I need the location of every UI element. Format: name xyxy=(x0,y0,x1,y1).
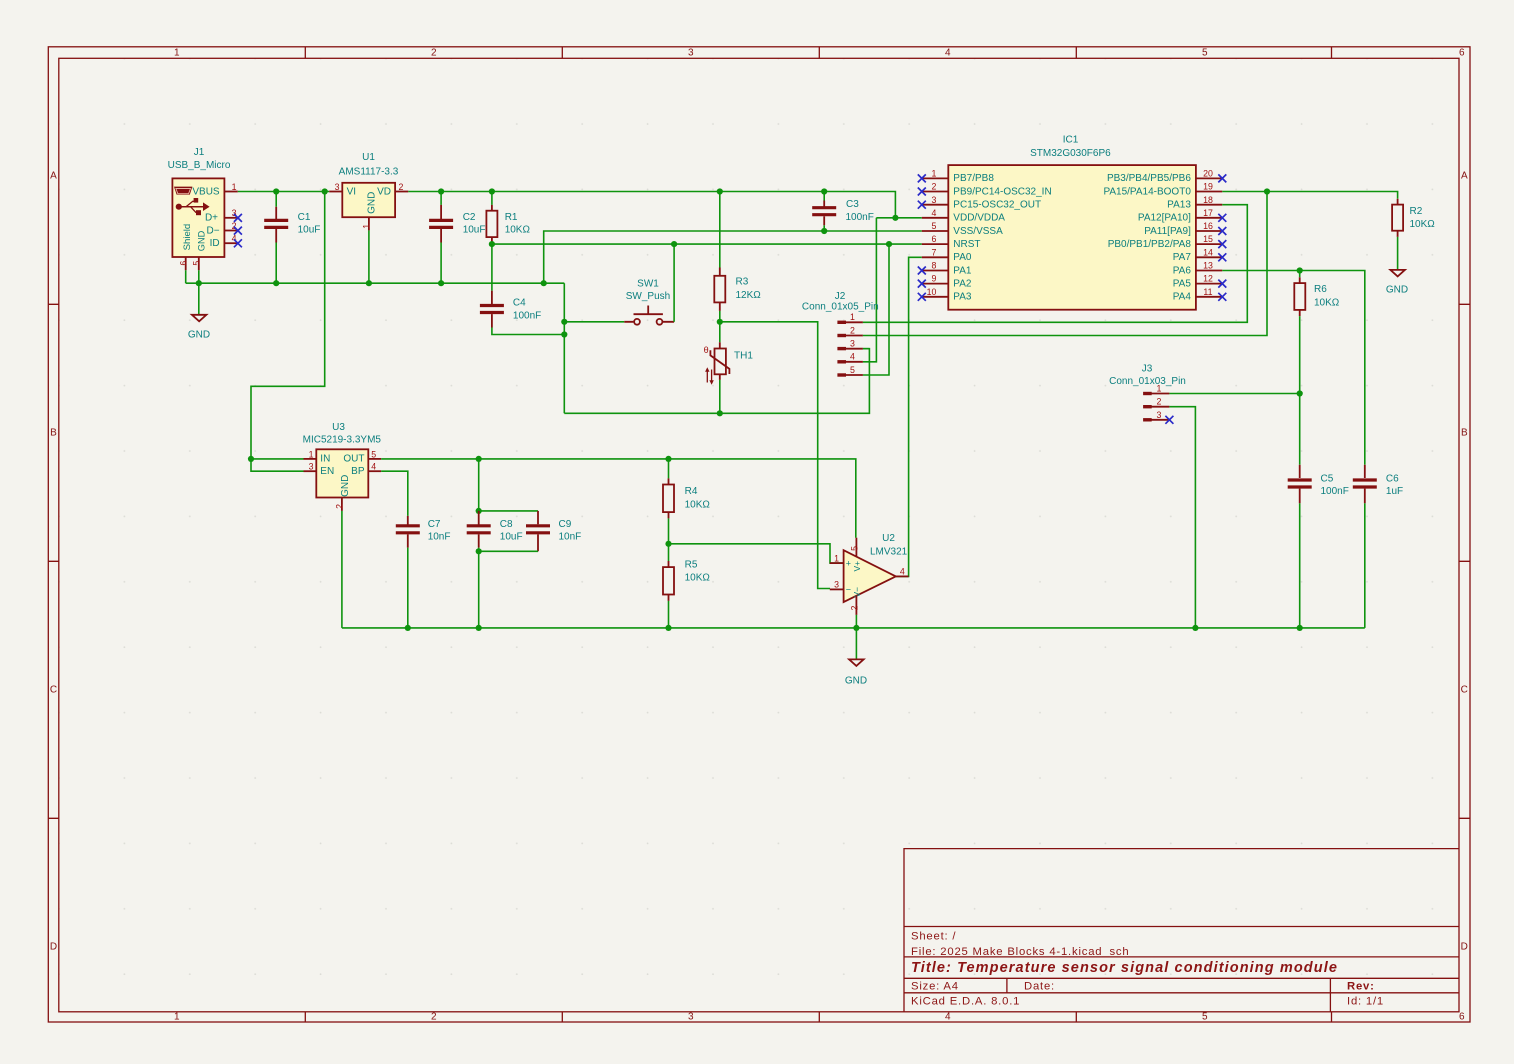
no-connect X on IC1 pin 20 xyxy=(1218,174,1226,182)
resistor R5 top lead xyxy=(668,544,670,561)
svg-text:4: 4 xyxy=(371,462,376,472)
resistor R2 bottom lead xyxy=(1397,231,1399,237)
svg-text:U2: U2 xyxy=(882,533,895,544)
junction 3V3 rail at C3 xyxy=(821,188,827,194)
wire J3 pin1 to R6 bottom xyxy=(1169,393,1299,395)
wire VBUS down to U3 branch xyxy=(251,192,325,459)
no-connect X on IC1 pin 2 xyxy=(918,188,926,196)
thermistor TH1 top lead xyxy=(719,322,721,343)
svg-text:SW1: SW1 xyxy=(637,279,659,290)
IC1 pin 10 stub xyxy=(922,296,949,298)
IC1 pin 12 stub xyxy=(1196,283,1222,285)
svg-text:5: 5 xyxy=(192,261,202,266)
svg-text:7: 7 xyxy=(932,247,937,257)
svg-text:C6: C6 xyxy=(1386,474,1399,485)
svg-text:R4: R4 xyxy=(685,486,698,497)
wire J2 pin3 to gnd rail2 xyxy=(863,348,870,350)
J3 pin 1 xyxy=(1143,392,1152,395)
thermistor TH1 body xyxy=(715,349,726,375)
wire NRST down to C4 xyxy=(491,244,493,291)
U3 pin 4 stub (BP) xyxy=(368,470,381,472)
svg-text:EN: EN xyxy=(320,466,334,477)
wire J2 pin1 to PA13 xyxy=(863,205,1247,323)
wire VDD feed to IC pin4 xyxy=(876,217,921,219)
capacitor C5 plates xyxy=(1288,480,1312,487)
resistor R6 body xyxy=(1294,283,1305,310)
thermistor TH1 diagonal mark xyxy=(710,350,729,374)
svg-text:Conn_01x05_Pin: Conn_01x05_Pin xyxy=(802,302,879,313)
svg-text:15: 15 xyxy=(1203,234,1213,244)
J1 pin 4 stub xyxy=(224,242,237,244)
svg-text:8: 8 xyxy=(932,261,937,271)
svg-text:1: 1 xyxy=(232,182,237,192)
junction 3V3B rail at C8 column xyxy=(476,456,482,462)
U3 pin 3 stub (EN) xyxy=(304,470,317,472)
svg-text:10nF: 10nF xyxy=(428,532,451,543)
svg-text:1: 1 xyxy=(932,169,937,179)
resistor R5 bottom lead xyxy=(668,595,670,601)
IC1 pin 4 stub xyxy=(922,217,949,219)
regulator U1 body xyxy=(342,183,395,217)
junction C8 top bridge xyxy=(476,508,482,514)
U1 pin 2 stub (VD) xyxy=(395,191,408,193)
svg-text:PA15/PA14-BOOT0: PA15/PA14-BOOT0 xyxy=(1103,186,1191,197)
resistor R3 body xyxy=(714,276,725,303)
svg-text:Conn_01x03_Pin: Conn_01x03_Pin xyxy=(1109,376,1186,387)
svg-text:5: 5 xyxy=(849,546,859,551)
IC1 pin 15 stub xyxy=(1196,243,1222,245)
svg-text:PB7/PB8: PB7/PB8 xyxy=(953,173,994,184)
U2 pin 5 stub (V+) xyxy=(855,538,857,557)
junction gnd rail at J1 pin5 xyxy=(196,280,202,286)
svg-text:A: A xyxy=(50,171,57,182)
svg-text:Date:: Date: xyxy=(1024,980,1055,992)
svg-text:B: B xyxy=(50,428,57,439)
wire gnd rail corner down xyxy=(563,283,565,413)
U2 pin 4 stub (output) xyxy=(896,575,909,577)
thermistor TH1 bottom lead xyxy=(719,374,721,380)
wire VBUS J1 to U1 xyxy=(238,191,329,193)
svg-text:6: 6 xyxy=(1459,1012,1465,1023)
svg-text:1: 1 xyxy=(174,1012,180,1023)
svg-text:Shield: Shield xyxy=(182,224,193,251)
svg-text:D: D xyxy=(1461,941,1468,952)
wire U3 GND down to bottom rail xyxy=(341,511,343,628)
svg-text:USB_B_Micro: USB_B_Micro xyxy=(168,160,231,171)
junction gnd vertical from VSS drop xyxy=(541,280,547,286)
svg-text:GND: GND xyxy=(188,329,210,340)
capacitor C4 bottom lead xyxy=(491,314,493,327)
svg-text:C: C xyxy=(1461,685,1468,696)
svg-text:11: 11 xyxy=(1203,287,1212,297)
wire PA6 rail xyxy=(1222,271,1365,465)
J2 pin 3 xyxy=(837,347,846,350)
J1 pin 3 stub xyxy=(224,217,237,219)
connector J1 USB_B_Micro body xyxy=(172,178,224,257)
svg-text:PB3/PB4/PB5/PB6: PB3/PB4/PB5/PB6 xyxy=(1107,173,1191,184)
svg-text:PA6: PA6 xyxy=(1173,265,1192,276)
svg-text:+: + xyxy=(846,558,851,568)
junction VBUS rail at C1 xyxy=(273,188,279,194)
wire 5V to U3 EN xyxy=(251,459,304,471)
U1 pin 3 stub (VI) xyxy=(329,191,342,193)
no-connect X on IC1 pin 12 xyxy=(1218,280,1226,288)
svg-text:3: 3 xyxy=(688,1012,694,1023)
svg-text:10uF: 10uF xyxy=(298,225,321,236)
svg-text:1uF: 1uF xyxy=(1386,486,1403,497)
svg-text:5: 5 xyxy=(371,449,376,459)
J1 pin 2 stub xyxy=(224,230,237,232)
svg-text:4: 4 xyxy=(850,352,855,362)
junction 3V3B rail at R4 xyxy=(665,456,671,462)
junction SW1 left at gnd vertical xyxy=(561,319,567,325)
svg-text:10KΩ: 10KΩ xyxy=(685,573,711,584)
svg-text:A: A xyxy=(1461,171,1468,182)
J2 pin 1 xyxy=(837,321,846,324)
no-connect X on IC1 pin 15 xyxy=(1218,240,1226,248)
IC1 pin 19 stub xyxy=(1196,191,1222,193)
svg-text:1: 1 xyxy=(834,553,839,563)
no-connect X on IC1 pin 17 xyxy=(1218,214,1226,222)
junction PA6 at R6 xyxy=(1297,267,1303,273)
J1 micro-usb plug icon xyxy=(174,187,192,195)
svg-text:BP: BP xyxy=(351,466,365,477)
resistor R1 bottom lead xyxy=(491,237,493,244)
svg-text:PA5: PA5 xyxy=(1173,278,1192,289)
svg-text:2: 2 xyxy=(932,182,937,192)
svg-text:V+: V+ xyxy=(852,561,862,572)
IC1 pin 13 stub xyxy=(1196,270,1222,272)
svg-text:D−: D− xyxy=(207,225,220,236)
capacitor C9 plates xyxy=(526,526,550,533)
junction NRST at J2 drop xyxy=(886,241,892,247)
resistor R4 body xyxy=(663,485,674,513)
svg-text:R2: R2 xyxy=(1410,206,1423,217)
wire midpoint to opamp plus xyxy=(669,544,844,563)
capacitor C1 top lead xyxy=(275,192,277,207)
svg-text:C3: C3 xyxy=(846,199,859,210)
capacitor C7 top lead xyxy=(407,516,409,525)
junction 3V3 rail at R1 xyxy=(489,188,495,194)
svg-text:2: 2 xyxy=(334,504,344,509)
svg-text:14: 14 xyxy=(1203,247,1213,257)
mcu IC1 body xyxy=(948,165,1196,310)
svg-text:VBUS: VBUS xyxy=(192,186,220,197)
wire C8 column from rail xyxy=(478,459,480,511)
capacitor C3 plates xyxy=(812,208,836,215)
junction VDD at 3V3 drop xyxy=(892,215,898,221)
resistor R4 top lead xyxy=(668,459,670,479)
svg-text:C: C xyxy=(50,685,57,696)
capacitor C1 plates xyxy=(264,220,288,227)
wire gnd rail left xyxy=(186,282,565,284)
svg-text:MIC5219-3.3YM5: MIC5219-3.3YM5 xyxy=(303,435,382,446)
no-connect X on IC1 pin 8 xyxy=(918,267,926,275)
frame ticks bottom xyxy=(305,1012,1331,1022)
wire J3 pin2 down to gnd rail xyxy=(1169,407,1195,628)
svg-text:PA12[PA10]: PA12[PA10] xyxy=(1138,213,1191,224)
junction R4 R5 midpoint xyxy=(665,541,671,547)
J1 pin 1 stub xyxy=(224,191,237,193)
capacitor C8 top lead xyxy=(478,511,480,526)
U2 pin 2 stub (V-) xyxy=(855,596,857,615)
svg-text:SW_Push: SW_Push xyxy=(626,291,670,302)
capacitor C8 plates xyxy=(467,526,491,533)
svg-text:GND: GND xyxy=(340,475,351,497)
no-connect X on IC1 pin 3 xyxy=(918,201,926,209)
ground symbol at U2 xyxy=(849,659,864,666)
thermistor TH1 arrows glyph xyxy=(705,367,714,384)
IC1 pin 6 stub xyxy=(922,243,949,245)
svg-text:θ: θ xyxy=(704,345,709,355)
svg-text:PA4: PA4 xyxy=(1173,292,1192,303)
wire NRST rail xyxy=(492,243,922,245)
title block outline xyxy=(904,849,1459,1012)
svg-text:IC1: IC1 xyxy=(1063,135,1079,146)
svg-text:4: 4 xyxy=(900,566,905,576)
junction 3V3 rail at R3 xyxy=(717,188,723,194)
svg-text:16: 16 xyxy=(1203,221,1213,231)
svg-text:File: 2025 Make Blocks 4-1.kic: File: 2025 Make Blocks 4-1.kicad_sch xyxy=(911,946,1129,958)
wire bridge to C9 top xyxy=(479,510,538,512)
opamp U2 body triangle xyxy=(844,550,896,602)
IC1 pin 18 stub xyxy=(1196,204,1222,206)
svg-text:C9: C9 xyxy=(559,519,572,530)
svg-text:Size: A4: Size: A4 xyxy=(911,980,959,992)
svg-text:C7: C7 xyxy=(428,519,441,530)
svg-text:1: 1 xyxy=(361,224,371,229)
svg-text:B: B xyxy=(1461,428,1468,439)
svg-text:2: 2 xyxy=(431,1012,437,1023)
svg-text:U3: U3 xyxy=(332,422,345,433)
junction 5V at U3 IN/EN xyxy=(248,456,254,462)
junction bottom rail at U2 gnd xyxy=(853,625,859,631)
capacitor C5 bottom lead xyxy=(1299,489,1301,504)
svg-text:2: 2 xyxy=(1157,397,1162,407)
svg-text:LMV321: LMV321 xyxy=(870,547,908,558)
junction gnd rail at U1 xyxy=(366,280,372,286)
svg-text:1: 1 xyxy=(309,449,314,459)
junction PA15 net at J2 drop xyxy=(1264,188,1270,194)
svg-text:6: 6 xyxy=(932,234,937,244)
svg-text:J3: J3 xyxy=(1142,363,1153,374)
IC1 pin 1 stub xyxy=(922,177,949,179)
svg-text:VD: VD xyxy=(377,186,391,197)
svg-text:100nF: 100nF xyxy=(1321,486,1349,497)
svg-text:1: 1 xyxy=(1157,383,1162,393)
svg-text:PA13: PA13 xyxy=(1167,200,1191,211)
svg-text:Title: Temperature sensor sign: Title: Temperature sensor signal conditi… xyxy=(911,960,1338,976)
capacitor C5 top lead xyxy=(1299,465,1301,478)
wire SW1 right up to NRST xyxy=(673,244,675,322)
svg-text:PA3: PA3 xyxy=(953,292,972,303)
svg-text:NRST: NRST xyxy=(953,239,980,250)
wire C8 column to bottom rail xyxy=(478,548,480,628)
junction bottom rail at C8 xyxy=(476,625,482,631)
svg-text:2: 2 xyxy=(849,606,859,611)
svg-text:GND: GND xyxy=(197,230,207,251)
svg-text:100nF: 100nF xyxy=(513,310,541,321)
svg-text:5: 5 xyxy=(850,365,855,375)
wire PA15 to R2 xyxy=(1222,192,1397,199)
resistor R1 top lead xyxy=(491,192,493,205)
svg-text:AMS1117-3.3: AMS1117-3.3 xyxy=(339,166,399,177)
wire U1 GND to rail xyxy=(368,230,370,283)
wire 5V to U3 IN xyxy=(251,458,304,460)
J1 pin 5 stub (GND) xyxy=(198,257,200,270)
capacitor C2 top lead xyxy=(440,192,442,205)
svg-text:VSS/VSSA: VSS/VSSA xyxy=(953,226,1003,237)
no-connect X on IC1 pin 14 xyxy=(1218,253,1226,261)
svg-text:−: − xyxy=(846,585,851,595)
wire U3 BP to C7 xyxy=(381,471,408,516)
wire J2 pin2 to PA15 xyxy=(863,192,1267,336)
svg-text:J2: J2 xyxy=(835,291,846,302)
capacitor C4 top lead xyxy=(491,291,493,306)
svg-text:13: 13 xyxy=(1203,261,1213,271)
svg-text:D+: D+ xyxy=(205,213,218,224)
svg-text:1: 1 xyxy=(174,47,180,58)
IC1 pin 3 stub xyxy=(922,204,949,206)
svg-text:5: 5 xyxy=(932,221,937,231)
resistor R5 body xyxy=(663,567,674,594)
wire gnd symbol stem U2 xyxy=(855,628,857,660)
J3 pin 2 xyxy=(1143,405,1152,408)
junction gnd rail at C2 xyxy=(438,280,444,286)
IC1 pin 16 stub xyxy=(1196,230,1222,232)
IC1 pin 2 stub xyxy=(922,191,949,193)
wire VSS rail drop xyxy=(544,231,922,283)
svg-text:J1: J1 xyxy=(194,147,205,158)
junction R3 bottom divider node xyxy=(717,319,723,325)
wire R3 top to 3V3 rail xyxy=(719,192,721,268)
frame ticks top xyxy=(305,47,1331,59)
no-connect X on J3 pin 3 xyxy=(1165,416,1173,424)
capacitor C1 bottom lead xyxy=(275,229,277,243)
svg-text:5: 5 xyxy=(1202,47,1208,58)
wire U2 V- to bottom rail xyxy=(855,615,857,628)
J1 pin 6 stub (Shield) xyxy=(185,257,187,270)
svg-text:3: 3 xyxy=(932,195,937,205)
svg-text:18: 18 xyxy=(1203,195,1213,205)
J2 pin 5 xyxy=(837,373,846,376)
wire VDD down to J2 pin4 xyxy=(863,218,877,362)
no-connect X on IC1 pin 11 xyxy=(1218,293,1226,301)
J2 pin 4 xyxy=(837,360,846,363)
wire divider node to opamp minus xyxy=(720,322,830,589)
wire J1 pin5 to gnd rail xyxy=(198,270,200,283)
svg-text:10KΩ: 10KΩ xyxy=(1314,297,1340,308)
junction 3V3 rail at C2 xyxy=(438,188,444,194)
junction bottom rail at C7 xyxy=(405,625,411,631)
resistor R6 bottom lead xyxy=(1299,310,1301,316)
svg-text:10uF: 10uF xyxy=(500,532,523,543)
svg-text:17: 17 xyxy=(1203,208,1213,218)
svg-text:2: 2 xyxy=(850,325,855,335)
svg-text:PA7: PA7 xyxy=(1173,252,1192,263)
svg-text:Sheet: /: Sheet: / xyxy=(911,931,956,943)
J3 pin 3 xyxy=(1143,418,1152,421)
wire J1 pin6 to gnd rail xyxy=(185,270,187,283)
svg-text:PB0/PB1/PB2/PA8: PB0/PB1/PB2/PA8 xyxy=(1108,239,1192,250)
junction C4 gnd at vertical xyxy=(561,331,567,337)
svg-text:PA0: PA0 xyxy=(953,252,972,263)
svg-text:10nF: 10nF xyxy=(559,532,582,543)
svg-text:10KΩ: 10KΩ xyxy=(505,225,531,236)
svg-text:C1: C1 xyxy=(298,212,311,223)
IC1 pin 11 stub xyxy=(1196,296,1222,298)
svg-text:4: 4 xyxy=(932,208,937,218)
no-connect X on IC1 pin 1 xyxy=(918,174,926,182)
svg-text:D: D xyxy=(50,941,57,952)
svg-text:C4: C4 xyxy=(513,298,526,309)
capacitor C2 bottom lead xyxy=(440,229,442,243)
U2 pin 1 stub (plus input) xyxy=(830,562,844,564)
svg-text:3: 3 xyxy=(688,47,694,58)
IC1 pin 17 stub xyxy=(1196,217,1222,219)
svg-text:3: 3 xyxy=(309,462,314,472)
svg-text:OUT: OUT xyxy=(343,454,364,465)
J1 usb trident icon xyxy=(176,198,210,215)
svg-text:19: 19 xyxy=(1203,182,1213,192)
svg-text:3: 3 xyxy=(1157,410,1162,420)
svg-text:R1: R1 xyxy=(505,212,518,223)
svg-text:9: 9 xyxy=(932,274,937,284)
junction bottom rail at R5 xyxy=(665,625,671,631)
junction VBUS at C1 xyxy=(273,280,279,286)
IC1 pin 5 stub xyxy=(922,230,949,232)
wire gnd rail 2 xyxy=(564,349,869,414)
no-connect X on IC1 pin 16 xyxy=(1218,227,1226,235)
svg-text:PA11[PA9]: PA11[PA9] xyxy=(1144,226,1191,237)
svg-text:20: 20 xyxy=(1203,169,1213,179)
svg-text:R6: R6 xyxy=(1314,284,1327,295)
svg-text:6: 6 xyxy=(1459,47,1465,58)
svg-text:2: 2 xyxy=(399,182,404,192)
IC1 pin 20 stub xyxy=(1196,177,1222,179)
svg-text:10KΩ: 10KΩ xyxy=(1410,219,1436,230)
capacitor C3 top lead xyxy=(823,192,825,201)
resistor R2 body xyxy=(1392,205,1403,231)
svg-text:4: 4 xyxy=(945,47,951,58)
wire 3V3B rail from U3 OUT xyxy=(381,459,856,538)
switch SW1 symbol xyxy=(624,306,674,325)
capacitor C7 bottom lead xyxy=(407,534,409,547)
svg-text:2: 2 xyxy=(431,47,437,58)
frame ticks left xyxy=(48,304,59,818)
svg-text:4: 4 xyxy=(945,1012,951,1023)
capacitor C6 top lead xyxy=(1364,465,1366,478)
junction VSS rail at C3 xyxy=(821,228,827,234)
svg-text:VI: VI xyxy=(347,186,356,197)
resistor R3 top lead xyxy=(719,268,721,276)
no-connect X on IC1 pin 10 xyxy=(918,293,926,301)
U3 pin 1 stub (IN) xyxy=(304,458,317,460)
svg-text:PA2: PA2 xyxy=(953,278,972,289)
svg-text:C8: C8 xyxy=(500,519,513,530)
svg-text:12: 12 xyxy=(1203,274,1213,284)
no-connect X on J1 pin 4 xyxy=(234,239,242,247)
svg-text:Rev:: Rev: xyxy=(1347,980,1375,992)
capacitor C8 bottom lead xyxy=(478,534,480,547)
U1 pin 1 stub (GND) xyxy=(368,217,370,230)
wire C9 bottom bridge xyxy=(537,534,539,551)
svg-text:TH1: TH1 xyxy=(734,351,753,362)
resistor R1 body xyxy=(486,211,497,237)
svg-text:10: 10 xyxy=(927,287,937,297)
title block row lines xyxy=(904,927,1459,993)
svg-text:1: 1 xyxy=(850,312,855,322)
